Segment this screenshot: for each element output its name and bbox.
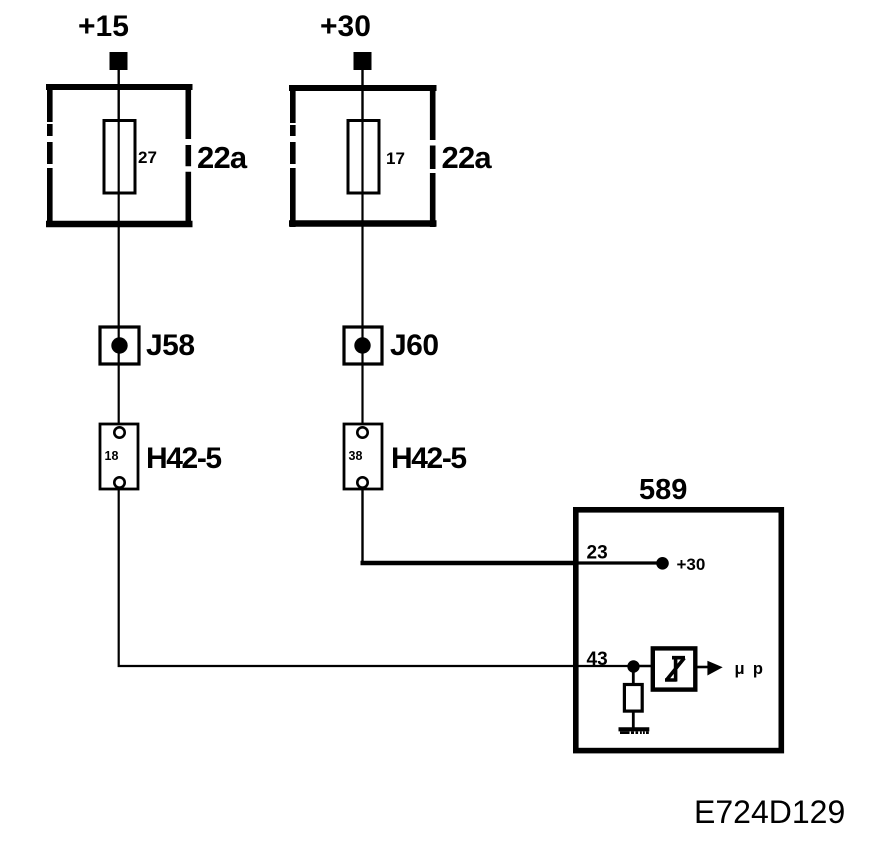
supply terminal +15 (filled square) bbox=[110, 52, 128, 70]
label H42-5 (right) bbox=[391, 442, 466, 475]
wire junction to resistor bbox=[632, 666, 635, 686]
svg-text:H42-5: H42-5 bbox=[146, 442, 221, 475]
label microprocessor (mu p) bbox=[735, 660, 763, 678]
drawing number E724D129 bbox=[694, 794, 845, 830]
svg-text:22a: 22a bbox=[197, 140, 248, 175]
svg-text:E724D129: E724D129 bbox=[694, 794, 845, 830]
fusebox label 22a (right) bbox=[442, 140, 493, 175]
svg-text:38: 38 bbox=[349, 449, 363, 463]
fuse 17 symbol bbox=[348, 121, 379, 194]
input stage box (threshold symbol) bbox=[653, 648, 696, 689]
svg-text:H42-5: H42-5 bbox=[391, 442, 466, 475]
unit 589 enclosure bbox=[576, 510, 782, 751]
wire junction to input stage box bbox=[634, 665, 652, 668]
svg-text:+15: +15 bbox=[78, 10, 129, 43]
wire through fuse 17 bbox=[361, 121, 363, 193]
wire H42-5 pin 18 to pin 43 of unit 589 bbox=[119, 488, 634, 666]
internal +30 label bbox=[677, 555, 706, 574]
wire fusebox 1 through J58 to H42-5 bbox=[118, 193, 120, 428]
wire fusebox 2 through J60 to H42-5 bbox=[361, 193, 363, 428]
svg-text:+30: +30 bbox=[320, 10, 371, 43]
resistor (pull-down) bbox=[624, 685, 642, 712]
ground symbol bbox=[619, 729, 650, 734]
label H42-5 (left) bbox=[146, 442, 221, 475]
wire from +30 terminal to fusebox 2 bbox=[361, 70, 363, 121]
svg-text:J58: J58 bbox=[146, 329, 195, 362]
wire H42-5 pin 38 down bbox=[361, 488, 363, 563]
thick wire to pin 23 of unit 589 bbox=[361, 561, 578, 565]
connector H42-5 pin 38 bbox=[344, 424, 382, 489]
svg-text:J60: J60 bbox=[390, 329, 439, 362]
node +15 label bbox=[78, 10, 129, 43]
fusebox label 22a (left) bbox=[197, 140, 248, 175]
svg-text:23: 23 bbox=[587, 543, 608, 564]
svg-text:589: 589 bbox=[639, 474, 687, 506]
node +30 label bbox=[320, 10, 371, 43]
svg-text:22a: 22a bbox=[442, 140, 493, 175]
fuse number 27 bbox=[138, 148, 157, 167]
fusebox 22a (right) dashed enclosure bbox=[289, 85, 437, 227]
wire pin 23 to internal +30 node bbox=[577, 561, 658, 564]
wire resistor to ground bbox=[632, 711, 635, 728]
fuse 27 symbol bbox=[104, 121, 135, 194]
svg-text:43: 43 bbox=[587, 649, 608, 670]
connector J58 (square with dot) bbox=[100, 327, 139, 364]
pin number 23 bbox=[587, 543, 608, 564]
pin number 43 bbox=[587, 649, 608, 670]
internal +30 node dot bbox=[656, 557, 669, 570]
connector J60 (square with dot) bbox=[344, 327, 382, 364]
label J60 bbox=[390, 329, 439, 362]
wire from +15 terminal to fusebox 1 bbox=[117, 70, 119, 121]
wire through fuse 27 bbox=[118, 121, 120, 193]
unit 589 label bbox=[639, 474, 687, 506]
arrow to microprocessor bbox=[707, 661, 722, 676]
svg-text:27: 27 bbox=[138, 148, 157, 167]
fusebox 22a (left) dashed enclosure bbox=[46, 84, 193, 227]
junction dot on pin 43 net bbox=[627, 660, 639, 672]
svg-text:+30: +30 bbox=[677, 555, 706, 574]
fuse number 17 bbox=[386, 149, 405, 168]
connector H42-5 pin 18 bbox=[100, 424, 138, 489]
svg-text:17: 17 bbox=[386, 149, 405, 168]
wire input stage to microprocessor arrow bbox=[695, 666, 709, 669]
supply terminal +30 (filled square) bbox=[354, 52, 372, 70]
svg-text:18: 18 bbox=[105, 449, 119, 463]
svg-text:μ p: μ p bbox=[735, 660, 763, 678]
label J58 bbox=[146, 329, 195, 362]
